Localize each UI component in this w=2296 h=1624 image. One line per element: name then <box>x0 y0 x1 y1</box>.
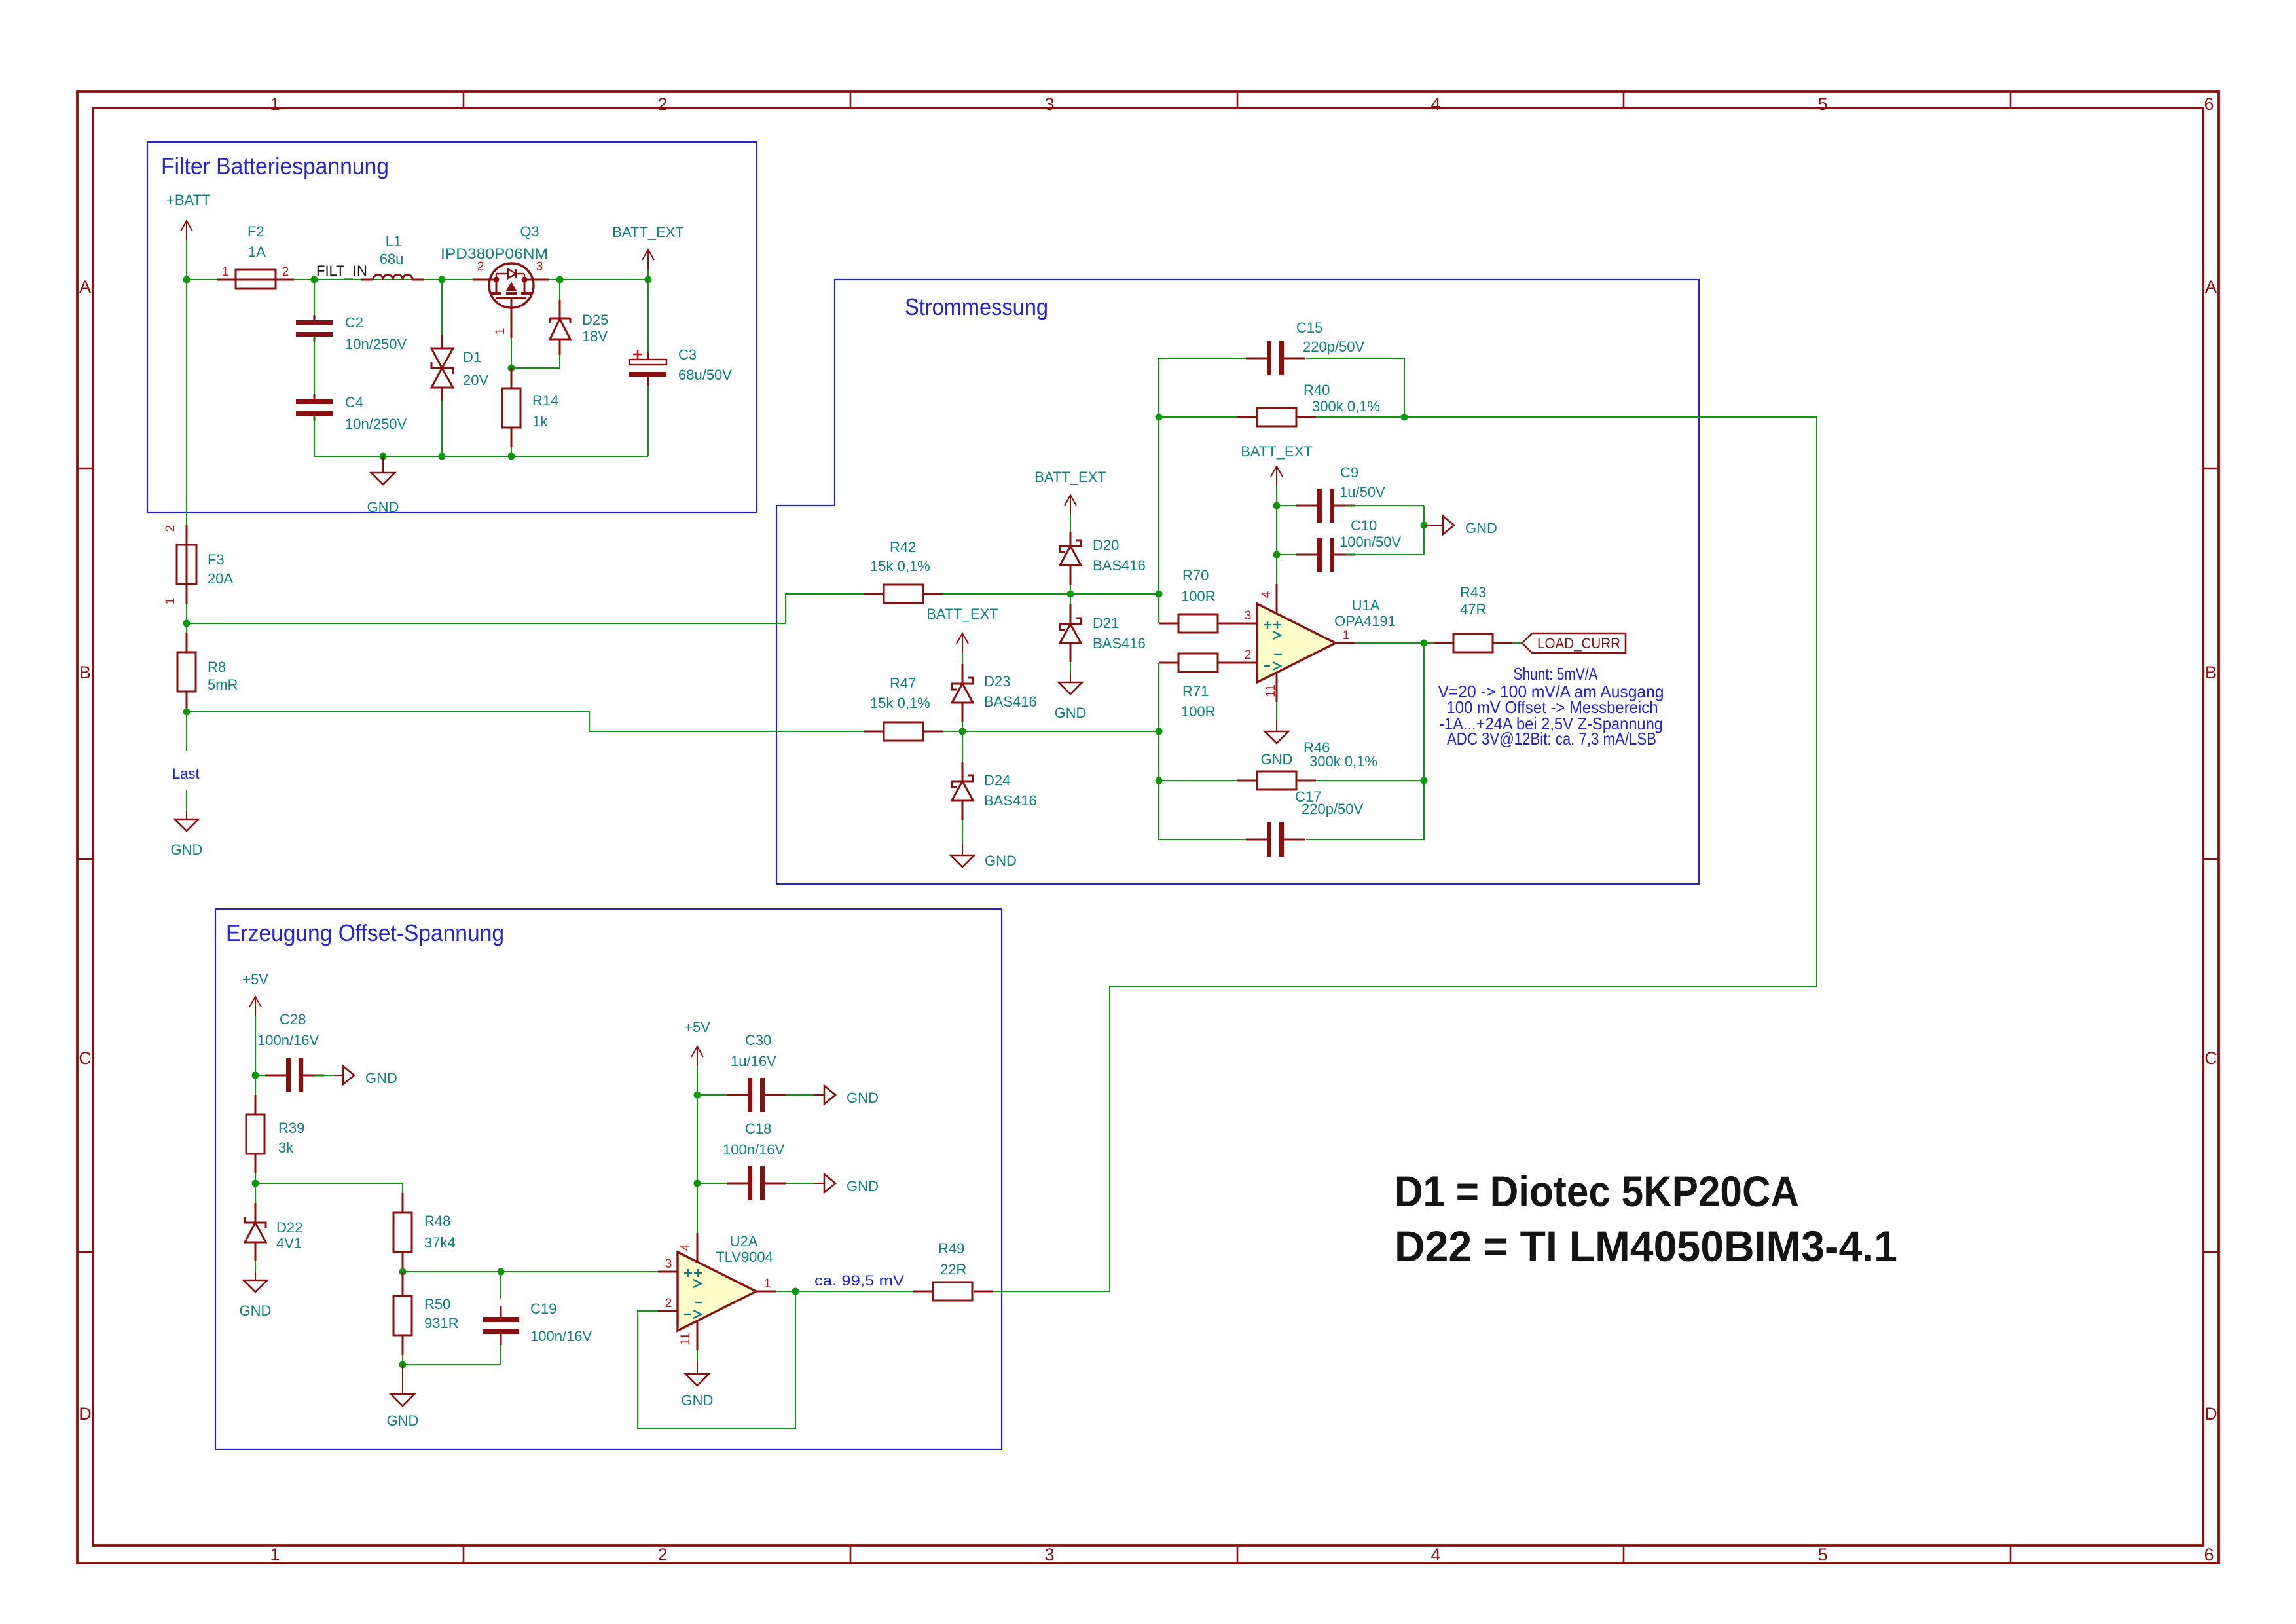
capacitor C19 <box>500 1272 501 1299</box>
svg-text:11: 11 <box>679 1333 693 1346</box>
section box Filter Batteriespannung <box>147 142 757 513</box>
capacitor C28 body <box>286 1058 291 1092</box>
resistor R43 body <box>1453 634 1493 652</box>
svg-text:1u/16V: 1u/16V <box>731 1053 776 1069</box>
node junction R40 left <box>1156 414 1163 421</box>
svg-text:1k: 1k <box>532 413 548 430</box>
pin U1A-2 <box>1237 662 1257 664</box>
svg-text:Last: Last <box>172 766 200 782</box>
svg-text:3: 3 <box>536 260 543 274</box>
op-amp U2A body <box>678 1252 756 1331</box>
svg-text:1: 1 <box>1343 629 1350 642</box>
node junction R46 left <box>1156 777 1163 784</box>
svg-text:GND: GND <box>1055 705 1087 721</box>
fuse F3 <box>177 545 196 584</box>
svg-text:LOAD_CURR: LOAD_CURR <box>1537 635 1620 652</box>
diode D23 BAS416 <box>962 653 963 664</box>
svg-text:1: 1 <box>270 94 280 114</box>
svg-text:1A: 1A <box>248 244 266 260</box>
svg-text:R42: R42 <box>890 539 916 555</box>
node junction at D25 <box>556 276 564 284</box>
svg-text:+5V: +5V <box>242 971 268 987</box>
TVS diode D1 <box>441 280 443 335</box>
power flag +5V <box>255 997 256 1016</box>
svg-text:220p/50V: 220p/50V <box>1302 801 1364 817</box>
svg-text:2: 2 <box>164 525 177 532</box>
node junction R39/D22 <box>252 1180 259 1187</box>
ground <box>951 855 974 867</box>
svg-text:220p/50V: 220p/50V <box>1303 339 1365 355</box>
node junction R47/vertical <box>1156 728 1163 735</box>
capacitor C4 <box>296 399 333 404</box>
wire left vertical C15/R40 to R70 <box>1158 358 1159 623</box>
wire C2 to C4 <box>314 337 315 399</box>
wire R50 GND stub <box>402 1365 403 1394</box>
svg-text:R40: R40 <box>1303 382 1330 398</box>
capacitor C30 body <box>748 1078 752 1112</box>
svg-text:2: 2 <box>665 1297 672 1310</box>
resistor R14 body <box>502 388 520 428</box>
svg-text:BATT_EXT: BATT_EXT <box>1034 469 1106 485</box>
ground <box>371 473 395 485</box>
svg-text:GND: GND <box>847 1090 879 1106</box>
resistor R47 body <box>884 722 923 741</box>
capacitor C30 <box>697 1094 727 1096</box>
svg-text:R39: R39 <box>278 1120 304 1136</box>
svg-text:1: 1 <box>494 328 507 335</box>
capacitor C9 body <box>1317 489 1322 523</box>
node junction bottom rail R14 <box>508 453 515 460</box>
svg-text:4V1: 4V1 <box>276 1235 302 1251</box>
svg-text:D1 = Diotec 5KP20CA: D1 = Diotec 5KP20CA <box>1394 1167 1799 1215</box>
node junction C28 <box>252 1072 259 1079</box>
wire vertical R46/C17 left <box>1158 731 1159 840</box>
svg-text:D: D <box>79 1404 92 1424</box>
node junction R42/vertical <box>1156 591 1163 598</box>
capacitor C17 <box>1159 839 1247 840</box>
svg-text:2: 2 <box>1245 648 1252 662</box>
svg-text:100n/16V: 100n/16V <box>530 1328 592 1344</box>
node junction R48/R50 <box>399 1268 407 1276</box>
svg-text:L1: L1 <box>386 233 401 249</box>
wire R47 to vertical <box>943 731 1159 732</box>
svg-text:18V: 18V <box>582 328 608 344</box>
svg-text:100n/50V: 100n/50V <box>1339 534 1402 550</box>
resistor R71 body <box>1178 654 1218 672</box>
frame row ticks <box>77 468 93 470</box>
svg-text:D1: D1 <box>463 349 481 365</box>
node junction gate/R14 <box>508 365 515 372</box>
svg-text:Filter Batteriespannung: Filter Batteriespannung <box>161 153 389 179</box>
wire tap to R42 with jog <box>187 594 864 623</box>
wire C4 to bottom rail <box>314 416 315 456</box>
svg-text:C4: C4 <box>345 394 363 411</box>
pin U1A-1 output <box>1336 642 1355 644</box>
ground <box>1265 731 1288 743</box>
svg-text:3: 3 <box>1245 609 1252 623</box>
power flag BATT_EXT <box>962 633 963 653</box>
wire C15 right vertical <box>1404 358 1405 417</box>
resistor R39 body <box>246 1115 264 1154</box>
wire R71 vertical <box>1158 663 1159 731</box>
svg-text:R71: R71 <box>1182 683 1209 699</box>
capacitor C19 body <box>483 1317 519 1322</box>
svg-text:5mR: 5mR <box>208 676 238 693</box>
wire D25 to gate node <box>511 367 560 369</box>
svg-text:4: 4 <box>1430 94 1440 114</box>
svg-text:1: 1 <box>222 265 229 279</box>
node junction GND tag <box>1421 522 1428 529</box>
op-amp U1A body <box>1257 604 1336 682</box>
svg-text:15k 0,1%: 15k 0,1% <box>870 558 930 574</box>
svg-text:Shunt: 5mV/A: Shunt: 5mV/A <box>1514 664 1599 684</box>
svg-text:D24: D24 <box>984 772 1010 788</box>
svg-text:ADC 3V@12Bit: ca. 7,3 mA/LSB: ADC 3V@12Bit: ca. 7,3 mA/LSB <box>1447 729 1656 748</box>
zener diode D25 <box>559 280 560 300</box>
svg-text:R8: R8 <box>208 659 226 675</box>
svg-text:100R: 100R <box>1181 588 1216 604</box>
node junction below R50 <box>399 1361 407 1369</box>
wire bottom rail <box>314 456 648 457</box>
wire main filter rail left <box>187 279 488 280</box>
resistor R40 body <box>1257 408 1296 426</box>
svg-text:C9: C9 <box>1340 464 1358 481</box>
wire output vertical to C17 <box>1423 643 1425 840</box>
svg-text:BAS416: BAS416 <box>1093 635 1146 652</box>
wire U2A feedback <box>638 1291 795 1428</box>
svg-text:3: 3 <box>665 1257 672 1271</box>
wire output to R43 <box>1355 642 1434 644</box>
diode D24 BAS416 <box>962 731 963 762</box>
node junction at +BATT <box>183 276 191 284</box>
svg-text:D: D <box>2204 1404 2217 1424</box>
pin U2A-4 <box>697 1233 699 1262</box>
resistor R50 body <box>393 1296 412 1335</box>
svg-text:1: 1 <box>164 598 177 605</box>
pin U2A-11 <box>697 1321 699 1350</box>
svg-text:3: 3 <box>1044 94 1054 114</box>
svg-text:A: A <box>2205 277 2217 297</box>
svg-text:C19: C19 <box>530 1301 556 1317</box>
frame column ticks <box>463 92 465 108</box>
svg-text:10n/250V: 10n/250V <box>345 336 407 352</box>
resistor R49 body <box>933 1282 972 1301</box>
svg-text:R14: R14 <box>532 392 558 409</box>
wire long route R40 to R49 <box>1110 417 1817 1292</box>
svg-text:Strommessung: Strommessung <box>905 293 1048 320</box>
ground <box>685 1374 709 1386</box>
capacitor C15 body <box>1267 341 1271 375</box>
node junction bottom rail D1 <box>439 453 446 460</box>
diode D20 BAS416 <box>1070 515 1071 532</box>
ground <box>1059 682 1082 694</box>
wire +5V to C30 <box>697 1066 698 1183</box>
node junction F3/R8 tap <box>183 620 191 627</box>
svg-text:C2: C2 <box>345 314 363 331</box>
svg-text:GND: GND <box>387 1412 419 1429</box>
capacitor C18 <box>697 1183 727 1184</box>
svg-text:20A: 20A <box>208 570 233 587</box>
ground <box>343 1066 354 1084</box>
svg-text:300k 0,1%: 300k 0,1% <box>1312 398 1380 415</box>
resistor R48 body <box>393 1213 412 1252</box>
ground <box>1443 516 1454 534</box>
ground <box>824 1174 835 1192</box>
svg-text:300k 0,1%: 300k 0,1% <box>1309 753 1377 769</box>
svg-text:37k4: 37k4 <box>424 1234 456 1251</box>
zener diode D22 <box>255 1183 256 1203</box>
pin U1A-3 <box>1237 623 1257 625</box>
svg-text:R43: R43 <box>1460 584 1486 600</box>
resistor R42 body <box>884 585 923 603</box>
svg-text:BAS416: BAS416 <box>984 792 1037 809</box>
svg-text:BAS416: BAS416 <box>1093 557 1146 574</box>
wire pin3 net <box>403 1271 658 1272</box>
wire Q3 to BATT_EXT corner <box>549 279 648 280</box>
svg-text:1u/50V: 1u/50V <box>1339 484 1385 500</box>
svg-text:4: 4 <box>1430 1545 1440 1564</box>
wire C18 to U2A pin4 <box>697 1183 698 1233</box>
capacitor C10 body <box>1317 538 1322 572</box>
power flag +BATT <box>186 221 187 240</box>
svg-text:GND: GND <box>365 1070 397 1086</box>
wire U2A GND stub <box>697 1350 698 1362</box>
svg-text:22R: 22R <box>940 1261 966 1278</box>
node junction R40 right <box>1401 414 1408 421</box>
node junction at D1 <box>439 276 446 284</box>
resistor R46 body <box>1257 771 1296 790</box>
resistor R70 body <box>1178 614 1218 633</box>
ground <box>175 819 198 831</box>
svg-text:C: C <box>79 1048 92 1068</box>
wire R8 down <box>186 712 187 751</box>
svg-text:GND: GND <box>682 1392 714 1409</box>
svg-text:4: 4 <box>1260 591 1273 598</box>
svg-text:10n/250V: 10n/250V <box>345 416 407 432</box>
svg-text:GND: GND <box>985 853 1017 869</box>
svg-text:GND: GND <box>847 1178 879 1194</box>
wire R49 to long route <box>993 1291 1110 1292</box>
svg-text:2: 2 <box>657 94 667 114</box>
pin U1A-11 <box>1276 673 1278 702</box>
svg-text:100n/16V: 100n/16V <box>257 1032 319 1048</box>
node junction at C3 <box>645 276 652 284</box>
svg-text:C10: C10 <box>1351 517 1377 534</box>
pin U2A-1 output <box>757 1291 776 1293</box>
pin U1A-4 <box>1276 584 1278 614</box>
capacitor C17 body <box>1267 822 1271 857</box>
svg-text:A: A <box>79 277 91 297</box>
svg-text:2: 2 <box>657 1545 667 1564</box>
svg-text:B: B <box>2205 663 2217 682</box>
svg-text:GND: GND <box>1261 751 1293 767</box>
wire F3 to R8 <box>186 604 187 633</box>
svg-text:11: 11 <box>1264 684 1278 697</box>
node junction output <box>1421 640 1428 647</box>
svg-text:3: 3 <box>1044 1545 1054 1564</box>
svg-text:C28: C28 <box>280 1011 306 1027</box>
svg-text:IPD380P06NM: IPD380P06NM <box>441 246 548 262</box>
svg-text:100n/16V: 100n/16V <box>723 1141 785 1158</box>
wire R43 to LOAD_CURR <box>1512 642 1522 644</box>
node junction D23/D24 <box>959 728 966 735</box>
svg-text:C30: C30 <box>745 1032 771 1048</box>
svg-text:R48: R48 <box>424 1213 450 1229</box>
svg-text:C15: C15 <box>1296 320 1322 336</box>
svg-text:R47: R47 <box>890 675 916 692</box>
wire U2A output <box>776 1291 913 1292</box>
svg-text:C3: C3 <box>678 346 697 363</box>
svg-text:47R: 47R <box>1460 601 1486 618</box>
node FILT_IN junction <box>311 276 318 284</box>
svg-text:BAS416: BAS416 <box>984 693 1037 710</box>
wire C9/C10 right vertical <box>1423 506 1425 555</box>
svg-text:4: 4 <box>679 1244 693 1251</box>
svg-text:R70: R70 <box>1182 567 1209 583</box>
capacitor C10 <box>1277 554 1296 555</box>
wire BATT_EXT down to pin4 <box>1276 486 1277 584</box>
capacitor C18 body <box>748 1166 752 1200</box>
svg-text:U1A: U1A <box>1352 597 1380 614</box>
capacitor C2 <box>296 320 333 325</box>
svg-text:1: 1 <box>764 1277 771 1291</box>
svg-text:68u/50V: 68u/50V <box>678 367 732 383</box>
node junction R46 right <box>1421 777 1428 784</box>
svg-text:GND: GND <box>367 499 399 515</box>
wire C19 return <box>403 1364 501 1365</box>
capacitor C28 <box>255 1075 265 1076</box>
resistor R8 body <box>177 652 196 692</box>
ground <box>391 1394 414 1406</box>
svg-text:6: 6 <box>2204 1545 2214 1564</box>
hierarchical label LOAD_CURR <box>1522 633 1626 653</box>
svg-text:D22 = TI LM4050BIM3-4.1: D22 = TI LM4050BIM3-4.1 <box>1394 1222 1897 1270</box>
svg-text:GND: GND <box>1465 520 1497 536</box>
svg-text:C18: C18 <box>745 1120 771 1137</box>
wire tap to R47 with jog <box>187 712 864 731</box>
node junction C30 <box>694 1092 701 1099</box>
node junction C19 <box>498 1268 505 1276</box>
wire +5V to C28 <box>255 1016 256 1095</box>
ground <box>244 1280 267 1292</box>
node junction U2A output <box>792 1288 799 1295</box>
node junction bottom rail GND <box>380 453 387 460</box>
power flag BATT_EXT <box>647 249 649 269</box>
wire Last to GND <box>186 790 187 811</box>
svg-text:2: 2 <box>477 260 484 274</box>
node junction C9 <box>1273 502 1281 509</box>
wire R42 to vertical <box>943 593 1159 595</box>
inductor L1 <box>373 275 412 280</box>
svg-text:3k: 3k <box>278 1139 294 1156</box>
svg-text:FILT_IN: FILT_IN <box>316 263 367 279</box>
svg-text:GND: GND <box>171 841 203 858</box>
power flag +5V <box>697 1046 698 1066</box>
svg-text:ca. 99,5 mV: ca. 99,5 mV <box>814 1272 904 1289</box>
section box Erzeugung Offset-Spannung <box>215 909 1002 1449</box>
svg-text:D21: D21 <box>1093 615 1119 631</box>
svg-text:R50: R50 <box>424 1296 450 1312</box>
svg-text:D22: D22 <box>276 1219 302 1236</box>
svg-text:D25: D25 <box>582 312 608 328</box>
svg-text:6: 6 <box>2204 94 2214 114</box>
fuse F2 <box>236 270 276 289</box>
transistor Q3 IPD380P06NM <box>489 263 534 308</box>
pin U2A-3 <box>658 1271 678 1273</box>
capacitor C15 <box>1159 358 1247 359</box>
svg-text:20V: 20V <box>463 372 488 388</box>
pin U2A-2 <box>658 1310 678 1312</box>
node junction C10 <box>1273 551 1281 559</box>
svg-text:OPA4191: OPA4191 <box>1334 613 1396 629</box>
svg-text:931R: 931R <box>424 1315 459 1331</box>
svg-text:F2: F2 <box>247 223 264 240</box>
svg-text:D20: D20 <box>1093 537 1119 553</box>
wire +BATT vertical <box>186 240 187 280</box>
power flag BATT_EXT <box>1070 495 1071 515</box>
ground <box>824 1086 835 1104</box>
svg-text:B: B <box>79 663 91 682</box>
wire GND stub <box>382 456 384 473</box>
svg-text:1: 1 <box>270 1545 280 1564</box>
svg-text:100R: 100R <box>1181 703 1216 720</box>
svg-text:Erzeugung Offset-Spannung: Erzeugung Offset-Spannung <box>226 919 504 946</box>
svg-text:BATT_EXT: BATT_EXT <box>926 606 998 622</box>
svg-text:5: 5 <box>1817 1545 1827 1564</box>
svg-text:F3: F3 <box>208 551 225 568</box>
svg-text:5: 5 <box>1817 94 1827 114</box>
svg-text:BATT_EXT: BATT_EXT <box>1241 443 1313 460</box>
capacitor C9 <box>1277 505 1296 506</box>
power flag BATT_EXT <box>1276 466 1277 486</box>
svg-text:+BATT: +BATT <box>166 192 210 208</box>
svg-text:C: C <box>2204 1048 2217 1068</box>
svg-text:R49: R49 <box>938 1240 964 1257</box>
capacitor C3 electrolytic <box>647 280 649 352</box>
svg-text:TLV9004: TLV9004 <box>716 1249 773 1265</box>
node junction C18 <box>694 1180 701 1187</box>
svg-text:BATT_EXT: BATT_EXT <box>612 224 684 240</box>
svg-text:Q3: Q3 <box>520 223 539 240</box>
section box Strommessung <box>776 280 1699 884</box>
svg-text:2: 2 <box>282 265 289 279</box>
svg-text:U2A: U2A <box>730 1233 758 1249</box>
wire R39 to R48 <box>255 1183 403 1184</box>
svg-text:D23: D23 <box>984 673 1010 690</box>
svg-text:15k 0,1%: 15k 0,1% <box>870 695 930 711</box>
svg-text:GND: GND <box>240 1302 272 1319</box>
wire U1A GND stub <box>1276 702 1277 720</box>
node junction below R8 <box>183 709 191 716</box>
wire GND tag stub <box>1424 525 1443 526</box>
wire +BATT down to F3 <box>186 280 187 525</box>
diode D21 BAS416 <box>1070 594 1071 604</box>
node junction D20/D21 <box>1067 591 1074 598</box>
svg-text:68u: 68u <box>380 251 404 267</box>
svg-text:+5V: +5V <box>684 1019 710 1035</box>
